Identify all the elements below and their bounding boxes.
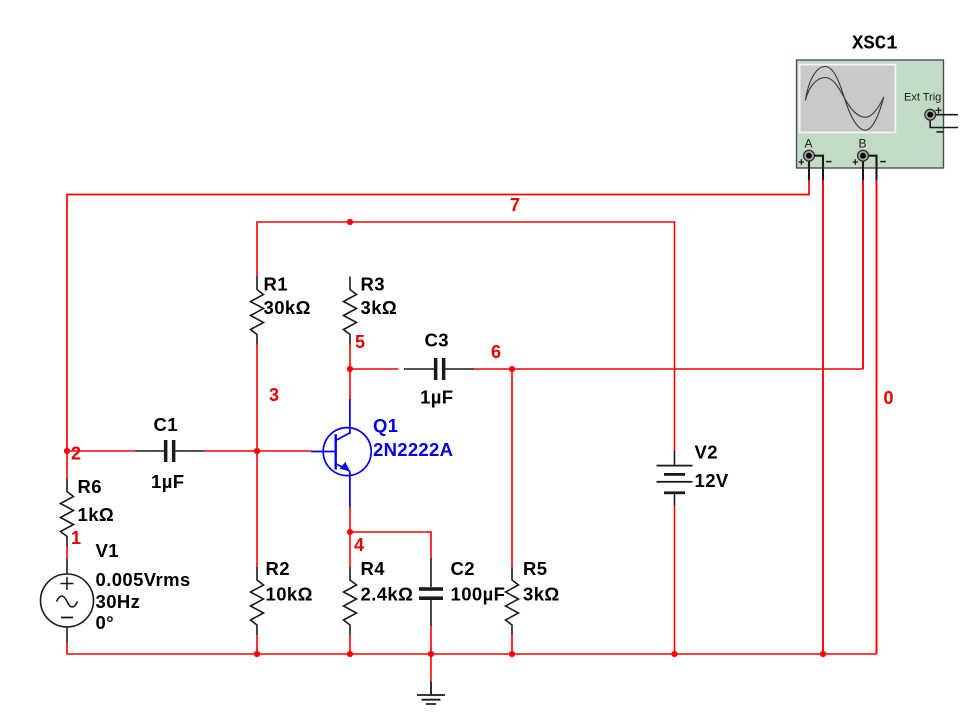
junction rail R5	[509, 651, 515, 657]
wire ground rail (bottom)	[67, 643, 877, 654]
svg-text:V2: V2	[695, 442, 718, 463]
wire R5 top from node 6	[511, 369, 513, 567]
Ext Trig label	[904, 92, 941, 104]
svg-text:A: A	[805, 137, 813, 151]
svg-text:3kΩ: 3kΩ	[523, 584, 560, 605]
Ext Trig port	[925, 109, 936, 120]
svg-text:3kΩ: 3kΩ	[361, 297, 398, 318]
wire scope B- to ground rail corner	[876, 180, 878, 654]
junction rail scope A-	[820, 651, 826, 657]
node 5 label	[355, 332, 365, 352]
wire node 7: scope A+ to top-left rail	[67, 180, 809, 450]
svg-text:30Hz: 30Hz	[96, 591, 141, 612]
junction supply at R3	[347, 219, 353, 225]
svg-text:1µF: 1µF	[420, 387, 453, 408]
svg-text:1: 1	[71, 528, 81, 548]
node 3 label	[269, 385, 279, 405]
svg-text:3: 3	[269, 385, 279, 405]
junction rail ground	[428, 651, 434, 657]
wire node 4 to C2 top	[350, 532, 431, 558]
battery V2	[657, 442, 729, 507]
wire supply rail y=222 (R1/R3 top to V2)	[257, 222, 675, 451]
scope port B plus sign	[853, 159, 858, 164]
resistor R2	[251, 558, 313, 635]
AC source V1	[41, 540, 191, 643]
resistor R3	[344, 274, 398, 345]
svg-text:0°: 0°	[96, 612, 115, 633]
junction node 3 base	[254, 448, 260, 454]
svg-text:100µF: 100µF	[451, 584, 506, 605]
wire scope B+ down to node 6 wire	[862, 180, 864, 369]
node 1 label	[71, 528, 81, 548]
junction node 5	[347, 366, 353, 372]
svg-text:2.4kΩ: 2.4kΩ	[361, 584, 414, 605]
svg-text:C3: C3	[425, 330, 449, 351]
svg-text:R4: R4	[361, 558, 386, 579]
svg-text:R1: R1	[264, 274, 288, 295]
svg-text:0: 0	[884, 388, 894, 408]
junction node 6	[509, 366, 515, 372]
Ext Trig minus sign	[937, 131, 944, 133]
svg-text:R5: R5	[523, 558, 547, 579]
svg-text:30kΩ: 30kΩ	[264, 297, 311, 318]
scope port A	[804, 150, 815, 161]
svg-text:R6: R6	[78, 476, 102, 497]
svg-text:1µF: 1µF	[151, 471, 184, 492]
resistor R4	[344, 558, 414, 635]
svg-text:V1: V1	[96, 540, 119, 561]
svg-text:12V: 12V	[695, 470, 729, 491]
svg-text:B: B	[859, 137, 867, 151]
svg-text:Ext Trig: Ext Trig	[904, 92, 941, 104]
node 2 label	[71, 444, 81, 464]
scope channel A label	[805, 137, 813, 151]
svg-text:XSC1: XSC1	[852, 33, 898, 55]
wire emitter to node 4	[349, 507, 351, 567]
svg-text:R3: R3	[361, 274, 385, 295]
scope port A minus sign	[826, 161, 832, 163]
ground symbol	[417, 682, 445, 705]
Ext Trig plus sign	[936, 107, 942, 113]
svg-text:0.005Vrms: 0.005Vrms	[96, 569, 191, 590]
svg-text:C2: C2	[451, 558, 475, 579]
wire node 2 horizontal (node2 to Q1 base)	[67, 450, 135, 452]
wire node 1 (R6 bottom to V1 top)	[66, 547, 68, 559]
junction rail R2	[254, 651, 260, 657]
Ext Trig wires	[930, 115, 958, 128]
svg-text:2N2222A: 2N2222A	[373, 439, 453, 460]
svg-text:10kΩ: 10kΩ	[266, 584, 313, 605]
capacitor C2	[419, 558, 505, 626]
junction rail R4	[347, 651, 353, 657]
scope trace A (outer sine)	[805, 67, 883, 131]
oscilloscope screen	[799, 64, 897, 134]
transistor Q1	[311, 399, 453, 507]
resistor R6	[61, 476, 115, 547]
svg-text:Q1: Q1	[373, 415, 398, 436]
resistor R5	[506, 558, 560, 635]
wire node 3 rail (R1 bottom through base junction to R2 top)	[256, 345, 258, 568]
capacitor C1	[135, 414, 204, 492]
node 0 label	[884, 388, 894, 408]
wire node 2 down to R6	[66, 451, 68, 479]
scope trace B (inner sine)	[805, 78, 883, 118]
scope channel B label	[859, 137, 867, 151]
svg-text:2: 2	[71, 444, 81, 464]
junction node 2	[64, 448, 70, 454]
junction rail V2	[671, 651, 677, 657]
svg-text:R2: R2	[266, 558, 290, 579]
resistor R1	[251, 274, 311, 345]
svg-text:1kΩ: 1kΩ	[78, 504, 115, 525]
svg-text:C1: C1	[154, 414, 178, 435]
wire node 5/6 horizontal (R3 bottom, collector, C3, R5, scope B+)	[349, 345, 351, 400]
wire scope A- to ground rail	[822, 180, 824, 654]
wire ground stub below rail	[430, 654, 432, 682]
scope port B minus sign	[880, 161, 886, 163]
capacitor C3	[404, 330, 474, 408]
scope port B	[858, 150, 869, 161]
scope port A plus sign	[799, 159, 804, 164]
node 7 label	[510, 195, 520, 215]
svg-text:7: 7	[510, 195, 520, 215]
junction node 4	[347, 529, 353, 535]
svg-text:4: 4	[354, 535, 364, 555]
node 6 label	[491, 342, 501, 362]
svg-text:6: 6	[491, 342, 501, 362]
svg-text:5: 5	[355, 332, 365, 352]
oscilloscope XSC1 label	[852, 33, 898, 55]
scope pin leads (black)	[809, 156, 877, 181]
wire R2 bottom / R4 bottom / C2 bottom / R5 bottom / V2 bottom to rail	[257, 506, 675, 654]
oscilloscope XSC1 body	[797, 60, 944, 168]
node 4 label	[354, 535, 364, 555]
